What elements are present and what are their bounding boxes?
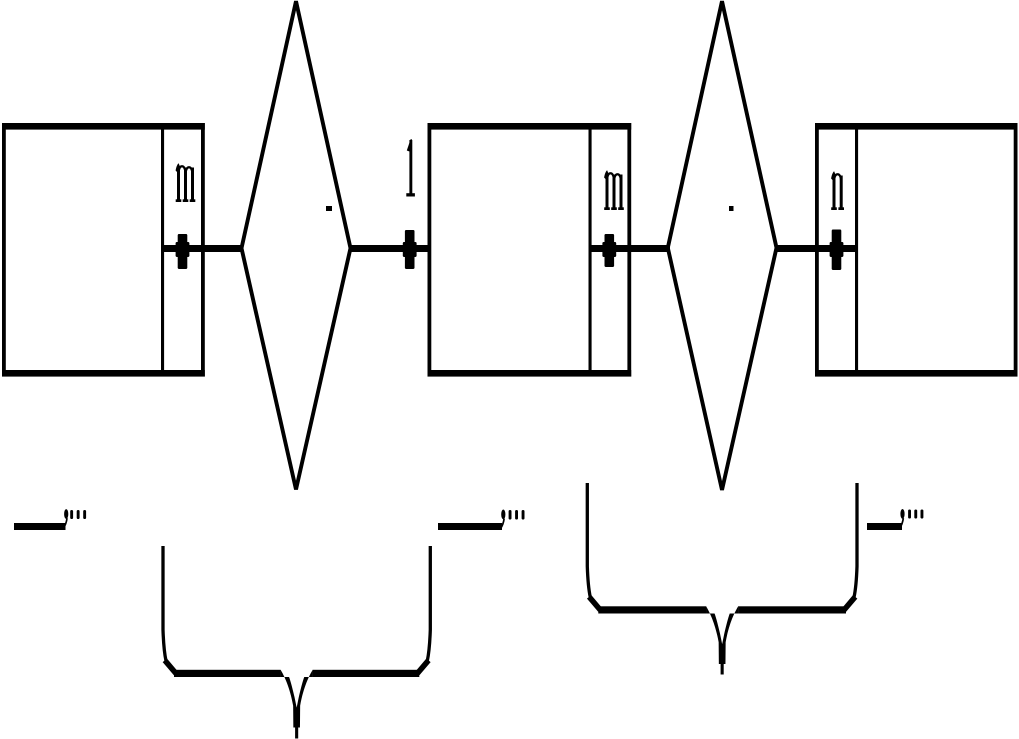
relationship diamond R1 xyxy=(242,1,351,489)
cardinality label m (E2) xyxy=(604,170,624,210)
tick T3 on L3 xyxy=(602,234,616,267)
text mark primes Q2 xyxy=(509,510,525,520)
entity box E3 (right rectangle) xyxy=(815,123,1018,377)
underbrace B2 (below R2) xyxy=(587,483,857,675)
entity box E2 (middle rectangle) xyxy=(428,123,632,377)
text mark primes Q3 xyxy=(908,510,923,519)
tick T4 on L4 xyxy=(830,230,844,271)
E3 attribute divider xyxy=(855,126,858,373)
tick T2 on L2 xyxy=(403,230,417,269)
text mark comma Q3 xyxy=(900,509,905,528)
R1 inner dash mark xyxy=(326,206,332,211)
E1 attribute divider xyxy=(161,126,164,373)
tick T1 on L1 xyxy=(176,234,190,269)
wire L4: R2 right vertex to E3 divider xyxy=(775,245,859,252)
wire L1: E1 divider to R1 left vertex xyxy=(161,245,243,252)
wire L2: R1 right vertex to E2 left edge xyxy=(349,245,431,252)
relationship diamond R2 xyxy=(668,1,777,490)
text mark dash D3 (bottom right) xyxy=(867,523,902,530)
entity box E1 (left rectangle) xyxy=(2,123,205,377)
cardinality label n (E3) xyxy=(831,171,844,210)
wire L3: E2 divider to R2 left vertex xyxy=(589,245,671,252)
underbrace B1 (below R1) xyxy=(163,546,430,739)
text mark comma Q1 xyxy=(63,509,68,528)
text mark primes Q1 xyxy=(70,510,86,519)
cardinality label m (E1) xyxy=(176,163,196,202)
text mark dash D2 (bottom middle) xyxy=(438,523,502,530)
cardinality label 1 (left of E2) xyxy=(406,139,415,196)
text mark dash D1 (bottom left) xyxy=(14,523,66,530)
R2 inner dot mark xyxy=(729,206,734,211)
E2 attribute divider xyxy=(589,126,592,373)
text mark comma Q2 xyxy=(500,510,505,529)
